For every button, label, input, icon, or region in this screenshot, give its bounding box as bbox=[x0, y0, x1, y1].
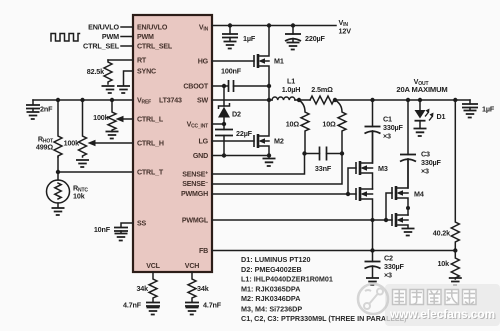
node junction PWMGH/M3 gates bbox=[346, 192, 350, 196]
wire SENSE+ bbox=[212, 154, 305, 175]
resistor 10k (FB) bbox=[437, 251, 459, 280]
capacitor 1uF (VOUT) bbox=[462, 100, 495, 114]
svg-text:SENSE+: SENSE+ bbox=[182, 171, 208, 179]
ground (RNTC) bbox=[52, 208, 65, 215]
resistor R 82.5k bbox=[87, 60, 112, 84]
node junction VOUT/C1 bbox=[370, 98, 374, 102]
ground (SYNC) bbox=[117, 86, 130, 93]
svg-text:D1: D1 bbox=[437, 112, 446, 121]
node junction PWMGL/M3 chain crossing bbox=[371, 218, 375, 222]
resistor 34k (VCL) bbox=[136, 272, 157, 302]
ground (10k FB) bbox=[449, 278, 462, 285]
wire M3 gate tie bbox=[348, 168, 356, 194]
wire VIN rail bbox=[212, 25, 336, 27]
transistor M1 bbox=[254, 26, 284, 101]
wire LG to M2 gate bbox=[212, 140, 254, 142]
wire PWMGH bbox=[212, 193, 356, 195]
node junction SW/M2 drain bbox=[267, 98, 271, 102]
svg-text:34k: 34k bbox=[136, 284, 148, 293]
svg-text:10k: 10k bbox=[73, 192, 85, 201]
capacitor 10nF bbox=[94, 225, 128, 234]
wire SS bbox=[121, 223, 133, 227]
ground (2nF) bbox=[27, 112, 40, 119]
node junction sense right tap bbox=[333, 98, 337, 102]
svg-text:220µF: 220µF bbox=[305, 34, 326, 43]
node junction PWMGL/M4 gates bbox=[384, 218, 388, 222]
node junction CBOOT/D2 bbox=[222, 84, 226, 88]
wire SENSE- bbox=[212, 154, 342, 185]
svg-text:100k: 100k bbox=[93, 113, 109, 122]
wire CTRL_SEL stub bbox=[121, 45, 133, 47]
node junction VOUT/C3 bbox=[406, 98, 410, 102]
transistor M3 (dual, lower) bbox=[356, 187, 373, 251]
node junction VIN/M1 bbox=[267, 23, 271, 27]
wire EN/UVLO stub bbox=[121, 26, 133, 28]
svg-text:M2: RJK0346DPA: M2: RJK0346DPA bbox=[241, 294, 300, 303]
svg-text:SYNC: SYNC bbox=[137, 68, 156, 76]
wire CTRL_T bbox=[58, 171, 133, 173]
svg-text:M1: RJK0365DPA: M1: RJK0365DPA bbox=[241, 284, 300, 293]
svg-text:100nF: 100nF bbox=[221, 67, 242, 76]
wire SYNC bbox=[124, 71, 134, 85]
node junction FB/divider tap bbox=[453, 248, 457, 252]
node junction VREF/pot1 bbox=[80, 98, 84, 102]
node junction GND/M2 source bbox=[267, 153, 271, 157]
wire RT bbox=[108, 59, 133, 61]
svg-text:CTRL_T: CTRL_T bbox=[137, 169, 164, 177]
node junction VIN/1uF bbox=[228, 23, 232, 27]
node junction VOUT/D1 bbox=[418, 98, 422, 102]
svg-text:FB: FB bbox=[199, 247, 208, 255]
svg-text:LT3743: LT3743 bbox=[159, 97, 182, 105]
ground (C2) bbox=[366, 278, 379, 285]
capacitor 2nF bbox=[26, 100, 53, 114]
inductor L1 1.0uH bbox=[272, 77, 300, 101]
svg-text:M1: M1 bbox=[274, 57, 284, 66]
node junction M4 mid bbox=[406, 206, 410, 210]
node junction VIN/220uF bbox=[291, 23, 295, 27]
resistor RHOT 499ohm bbox=[36, 100, 62, 157]
svg-text:C1, C2, C3: PTPR330M9L (THREE: C1, C2, C3: PTPR330M9L (THREE IN PARALLE… bbox=[241, 314, 407, 323]
ground (VCL) bbox=[147, 308, 160, 315]
capacitor C1 330uF x3 bbox=[365, 100, 404, 163]
capacitor 22uF bbox=[215, 124, 253, 156]
capacitor C3 330uF x3 bbox=[400, 100, 442, 188]
node junction VREF/pot2 bbox=[110, 98, 114, 102]
op-amp/controller IC U1 LT3743 body bbox=[133, 15, 212, 272]
input square wave symbol bbox=[51, 34, 80, 42]
svg-text:2nF: 2nF bbox=[40, 105, 53, 114]
svg-text:SW: SW bbox=[197, 97, 209, 105]
svg-text:20A MAXIMUM: 20A MAXIMUM bbox=[396, 85, 447, 94]
svg-text:M2: M2 bbox=[274, 137, 284, 146]
svg-text:40.2k: 40.2k bbox=[433, 229, 450, 238]
transistor M4 (dual, upper) bbox=[392, 159, 424, 215]
ground (M4) bbox=[402, 229, 415, 236]
svg-text:VCH: VCH bbox=[185, 262, 199, 270]
ground (power) bbox=[263, 159, 276, 167]
svg-text:100k: 100k bbox=[64, 139, 80, 148]
svg-text:M4: M4 bbox=[414, 190, 424, 199]
wire SW rail bbox=[212, 99, 272, 101]
svg-text:PWMGH: PWMGH bbox=[181, 190, 208, 198]
node junction sense left tap bbox=[297, 98, 301, 102]
svg-text:PWMGL: PWMGL bbox=[182, 217, 209, 225]
svg-text:L1: IHLP4040DZER1R0M01: L1: IHLP4040DZER1R0M01 bbox=[241, 275, 333, 284]
parts list bbox=[241, 255, 407, 323]
svg-text:12V: 12V bbox=[339, 27, 352, 36]
svg-text:SS: SS bbox=[137, 220, 147, 228]
svg-text:1µF: 1µF bbox=[482, 105, 495, 114]
svg-text:CBOOT: CBOOT bbox=[183, 83, 208, 91]
ground (10nF) bbox=[115, 234, 128, 241]
svg-text:D2: D2 bbox=[232, 110, 241, 119]
LED D1 bbox=[415, 100, 446, 128]
svg-text:GND: GND bbox=[193, 152, 208, 160]
svg-text:10Ω: 10Ω bbox=[322, 120, 336, 129]
ground (82.5k) bbox=[102, 86, 115, 93]
capacitor 4.7nF (VCH) bbox=[185, 301, 222, 310]
wire VOUT rail bbox=[334, 99, 470, 101]
node junction 33nF left bbox=[302, 151, 306, 155]
svg-text:82.5k: 82.5k bbox=[87, 67, 104, 76]
svg-text:LG: LG bbox=[199, 138, 209, 146]
svg-text:1µF: 1µF bbox=[243, 34, 256, 43]
svg-text:499Ω: 499Ω bbox=[36, 143, 54, 152]
thermistor RNTC 10k bbox=[47, 180, 89, 203]
svg-text:4.7nF: 4.7nF bbox=[123, 301, 142, 310]
resistor 10ohm (left) bbox=[286, 100, 309, 154]
svg-text:4.7nF: 4.7nF bbox=[203, 301, 222, 310]
wire FB rail bbox=[212, 250, 455, 252]
svg-text:CTRL_SEL: CTRL_SEL bbox=[83, 42, 120, 51]
node junction FB/C2 bbox=[370, 248, 374, 252]
svg-text:www.elecfans.com: www.elecfans.com bbox=[389, 307, 495, 321]
svg-text:VCL: VCL bbox=[146, 262, 160, 270]
node junction VCC_INT/22uF bbox=[222, 122, 226, 126]
resistor 10ohm (right) bbox=[322, 100, 346, 154]
wire HG to M1 gate bbox=[212, 60, 254, 62]
svg-text:10k: 10k bbox=[437, 259, 449, 268]
node junction GND/22uF bbox=[222, 153, 226, 157]
svg-text:EN/UVLO: EN/UVLO bbox=[137, 24, 168, 32]
transistor M4 (dual, lower) bbox=[392, 213, 408, 228]
resistor 34k (VCH) bbox=[188, 272, 209, 302]
capacitor 220uF bbox=[285, 26, 326, 44]
capacitor 1uF (VIN) bbox=[222, 26, 256, 44]
svg-text:D2: PMEG4002EB: D2: PMEG4002EB bbox=[241, 265, 302, 274]
node junction CTRL_T bbox=[56, 170, 60, 174]
svg-text:HG: HG bbox=[198, 58, 209, 66]
svg-text:×3: ×3 bbox=[384, 271, 392, 280]
svg-text:SENSE−: SENSE− bbox=[182, 180, 208, 188]
svg-text:33nF: 33nF bbox=[315, 164, 332, 173]
watermark CJK text (simulated glyph blocks) bbox=[393, 290, 477, 305]
svg-text:×3: ×3 bbox=[383, 132, 391, 141]
svg-text:D1: LUMINUS PT120: D1: LUMINUS PT120 bbox=[241, 255, 311, 264]
ground (220uF) bbox=[287, 43, 300, 50]
svg-text:22µF: 22µF bbox=[236, 129, 253, 138]
wire GND pin to power ground bbox=[212, 155, 269, 157]
wire RNTC to ground bbox=[57, 203, 59, 207]
wire M4 gate tie bbox=[386, 193, 392, 220]
svg-text:1.0µH: 1.0µH bbox=[282, 85, 301, 94]
svg-text:M3: M3 bbox=[378, 164, 388, 173]
svg-text:×3: ×3 bbox=[421, 167, 429, 176]
resistor 2.5mohm sense bbox=[310, 85, 334, 104]
wire VREF rail bbox=[33, 99, 133, 101]
node junction VOUT/FB divider bbox=[453, 98, 457, 102]
ground (100k CTRL_H) bbox=[76, 160, 89, 167]
watermark backdrop bbox=[385, 284, 500, 326]
wire L1 to sense resistor bbox=[295, 99, 310, 101]
ground (1uF VIN) bbox=[224, 42, 237, 49]
watermark www.elecfans.com bbox=[389, 307, 496, 322]
wire PWMGL bbox=[212, 219, 392, 221]
transistor M2 bbox=[254, 100, 284, 156]
svg-text:CTRL_SEL: CTRL_SEL bbox=[137, 43, 173, 51]
transistor M3 (dual, upper) bbox=[356, 131, 388, 189]
capacitor 4.7nF (VCL) bbox=[123, 301, 160, 310]
svg-text:CTRL_L: CTRL_L bbox=[137, 116, 164, 124]
wire RHOT to RNTC / CTRL_T tap bbox=[57, 157, 59, 180]
svg-text:M3, M4: Si7236DP: M3, M4: Si7236DP bbox=[241, 304, 302, 313]
svg-text:RT: RT bbox=[137, 57, 147, 65]
potentiometer 100k (CTRL_L) bbox=[93, 100, 133, 132]
node junction CBOOT/M1 source bbox=[267, 84, 271, 88]
svg-text:2.5mΩ: 2.5mΩ bbox=[311, 85, 333, 94]
capacitor C2 330uF x3 bbox=[365, 251, 405, 280]
ground (1uF VOUT) bbox=[464, 111, 477, 118]
wire CBOOT bbox=[212, 85, 228, 87]
svg-text:EN/UVLO: EN/UVLO bbox=[88, 23, 119, 32]
svg-text:10nF: 10nF bbox=[94, 225, 111, 234]
potentiometer 100k (CTRL_H) bbox=[64, 100, 133, 157]
wire PWM stub bbox=[121, 36, 133, 38]
svg-text:34k: 34k bbox=[197, 284, 209, 293]
capacitor 33nF bbox=[305, 147, 343, 174]
diode D2 schottky bbox=[218, 86, 241, 124]
svg-text:CTRL_H: CTRL_H bbox=[137, 140, 164, 148]
svg-text:10Ω: 10Ω bbox=[286, 120, 300, 129]
resistor 40.2k bbox=[433, 100, 460, 251]
capacitor 100nF bbox=[221, 67, 269, 93]
node junction VREF/RHOT bbox=[56, 98, 60, 102]
ground (VCH) bbox=[186, 308, 199, 315]
svg-text:PWM: PWM bbox=[137, 33, 154, 41]
node junction 33nF right bbox=[340, 151, 344, 155]
watermark logo circle bbox=[358, 284, 388, 314]
wire VCC_INT bbox=[212, 123, 224, 125]
ground (D1) bbox=[414, 129, 427, 137]
svg-text:PWM: PWM bbox=[102, 32, 119, 41]
ground (100k CTRL_L) bbox=[106, 132, 119, 139]
